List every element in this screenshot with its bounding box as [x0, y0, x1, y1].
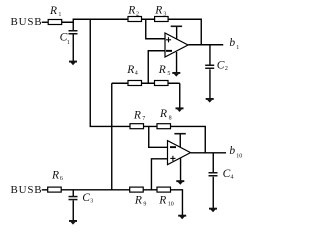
svg-text:6: 6 [60, 176, 63, 182]
svg-text:BUSB: BUSB [11, 16, 43, 28]
svg-text:R: R [158, 64, 166, 76]
svg-text:8: 8 [169, 115, 172, 121]
svg-text:5: 5 [167, 71, 170, 77]
svg-text:R: R [49, 5, 57, 17]
svg-text:1: 1 [67, 40, 70, 46]
svg-text:4: 4 [135, 71, 138, 77]
svg-text:C: C [82, 192, 90, 204]
svg-text:C: C [217, 60, 225, 72]
svg-text:1: 1 [58, 12, 61, 18]
svg-text:2: 2 [136, 11, 139, 17]
svg-text:BUSB: BUSB [11, 184, 43, 196]
svg-text:b: b [229, 145, 235, 157]
svg-text:3: 3 [90, 199, 93, 205]
svg-text:4: 4 [231, 175, 234, 181]
svg-text:R: R [51, 170, 59, 182]
svg-text:C: C [223, 168, 231, 180]
svg-text:R: R [159, 108, 167, 120]
svg-text:3: 3 [163, 11, 166, 17]
svg-text:b: b [229, 37, 235, 49]
svg-text:R: R [134, 195, 142, 207]
svg-text:R: R [133, 110, 141, 122]
svg-text:10: 10 [236, 153, 242, 159]
svg-text:9: 9 [143, 201, 146, 207]
svg-text:1: 1 [236, 45, 239, 51]
svg-text:R: R [126, 64, 134, 76]
svg-text:R: R [127, 4, 135, 16]
svg-text:R: R [158, 194, 166, 206]
svg-text:10: 10 [168, 202, 174, 208]
svg-text:2: 2 [225, 66, 228, 72]
svg-text:7: 7 [142, 116, 145, 122]
svg-text:R: R [154, 4, 162, 16]
